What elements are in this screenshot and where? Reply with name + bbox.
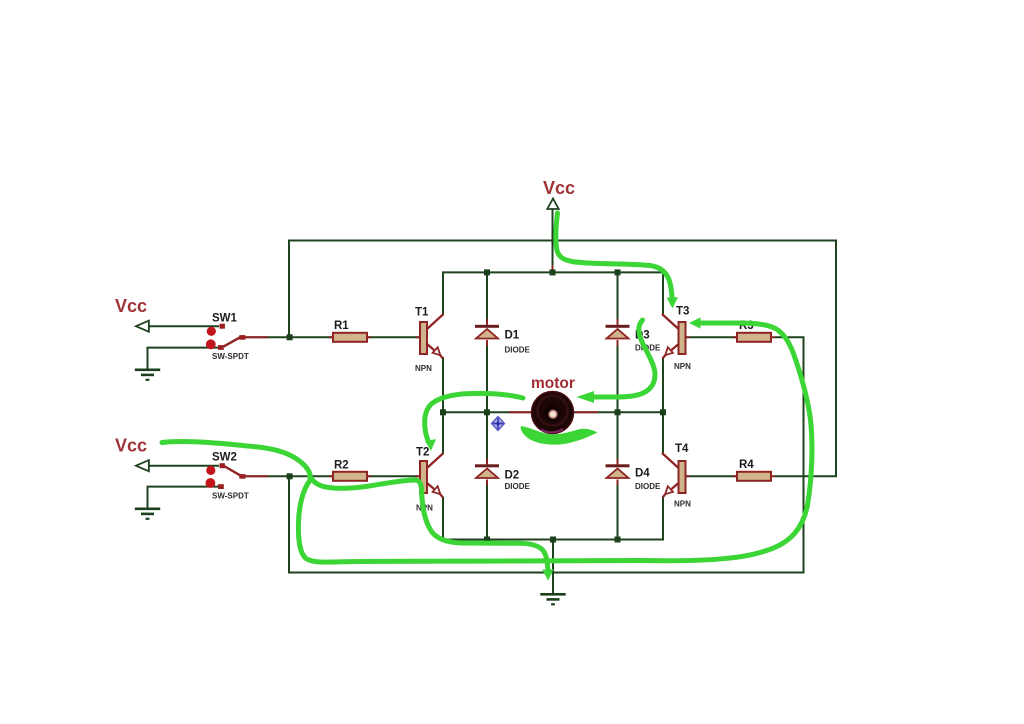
annotation arrow from motor left down into T2 collector bbox=[425, 393, 523, 441]
svg-text:DIODE: DIODE bbox=[635, 482, 661, 491]
wire R2 to T2 base bbox=[367, 475, 420, 477]
wire Vcc top drop bbox=[552, 209, 554, 272]
svg-text:NPN: NPN bbox=[415, 364, 432, 373]
wire inner top rail with ends to T1/T3 collectors bbox=[443, 272, 663, 314]
wire T2 collector up to motor row bbox=[442, 412, 444, 454]
annotation arrowhead down at center ground bbox=[542, 569, 553, 580]
wire SW1 lower throw to ground bbox=[148, 348, 219, 369]
annotation arrowhead down into T2 collector bbox=[425, 439, 436, 451]
svg-text:R4: R4 bbox=[739, 459, 754, 471]
switch SW2 bbox=[206, 452, 249, 501]
svg-text:SW-SPDT: SW-SPDT bbox=[212, 492, 249, 501]
wire SW2 lower throw to ground bbox=[148, 487, 219, 508]
wire node SW2 upper throw to Vcc arrow bbox=[149, 465, 219, 467]
wire maroon pin stubs bbox=[246, 336, 421, 338]
svg-text:NPN: NPN bbox=[674, 500, 691, 509]
svg-text:D4: D4 bbox=[635, 468, 650, 480]
annotation branch through R2 and T2 down to bottom arrow bbox=[310, 476, 548, 570]
svg-text:Vcc: Vcc bbox=[543, 178, 575, 198]
wire T3 base to R3 bbox=[686, 336, 738, 338]
annotation arrowhead down at T3 collector bbox=[667, 297, 678, 308]
svg-text:T1: T1 bbox=[415, 307, 429, 319]
wire outer top loop: left vertical, top rail, right vertical down to R4 bbox=[289, 241, 836, 477]
wire D1 column bbox=[486, 272, 488, 412]
wire motor row rail bbox=[443, 411, 663, 413]
svg-text:D2: D2 bbox=[505, 470, 520, 482]
wire T4 collector up to motor row bbox=[662, 412, 664, 454]
resistor R3 bbox=[737, 320, 771, 342]
ground under SW2 bbox=[135, 508, 160, 520]
annotation arrowhead left into motor right bbox=[577, 391, 595, 403]
resistor R4 bbox=[737, 459, 771, 481]
wire T4 base to R4 bbox=[686, 475, 738, 477]
wire SW1 common to R1 bbox=[246, 336, 333, 338]
wire D4 column bbox=[617, 412, 619, 539]
motor M1 bbox=[531, 375, 575, 434]
annotation arrowhead left into T3 base bbox=[689, 317, 701, 328]
svg-text:T3: T3 bbox=[676, 306, 689, 318]
power Vcc left lower bbox=[115, 436, 149, 472]
diode D4 bbox=[606, 464, 662, 491]
annotation motor rotation swoosh bbox=[521, 426, 598, 445]
svg-text:DIODE: DIODE bbox=[505, 482, 531, 491]
power Vcc top bbox=[543, 178, 575, 209]
svg-text:D1: D1 bbox=[505, 330, 520, 342]
svg-text:SW-SPDT: SW-SPDT bbox=[212, 352, 249, 361]
svg-text:SW1: SW1 bbox=[212, 313, 238, 325]
diode D1 bbox=[475, 325, 531, 355]
svg-text:R1: R1 bbox=[334, 320, 349, 332]
transistor T2 bbox=[416, 447, 444, 513]
annotation long loop SW2 to bottom rail to right side into T3 base bbox=[162, 323, 812, 562]
resistor R2 bbox=[333, 460, 367, 481]
resistor R1 bbox=[333, 320, 367, 342]
svg-text:Vcc: Vcc bbox=[115, 296, 147, 316]
wire D2 column bbox=[486, 412, 488, 539]
wire D3 column bbox=[617, 272, 619, 412]
ground center bottom bbox=[540, 593, 565, 605]
svg-text:Vcc: Vcc bbox=[115, 436, 147, 456]
node junction dots bbox=[287, 334, 293, 340]
wire T1 emitter down to motor row bbox=[442, 357, 444, 412]
wire R1 to T1 base bbox=[367, 336, 420, 338]
wire outer bottom loop: left vertical, bottom rail, right vertical up to R3 bbox=[289, 337, 804, 572]
ground under SW1 bbox=[135, 369, 160, 381]
diode D3 bbox=[606, 325, 662, 353]
wire T3 emitter down to motor row bbox=[662, 357, 664, 412]
wire center ground stem bbox=[552, 540, 554, 594]
transistor T4 bbox=[662, 443, 691, 509]
svg-text:DIODE: DIODE bbox=[505, 346, 531, 355]
annotation arrow from Vcc to T3 collector bbox=[556, 213, 672, 302]
wire SW2 common to R2 bbox=[246, 475, 333, 477]
svg-text:T4: T4 bbox=[675, 443, 689, 455]
wire inner bottom rail with T2/T4 emitters bbox=[443, 497, 663, 540]
svg-text:SW2: SW2 bbox=[212, 452, 237, 464]
wire node SW1 upper throw to Vcc arrow bbox=[149, 325, 219, 327]
svg-text:motor: motor bbox=[531, 375, 575, 392]
transistor T1 bbox=[415, 307, 444, 374]
svg-text:R2: R2 bbox=[334, 460, 349, 472]
diode D2 bbox=[475, 464, 531, 491]
svg-text:T2: T2 bbox=[416, 447, 429, 459]
svg-text:NPN: NPN bbox=[674, 362, 691, 371]
transistor T3 bbox=[662, 306, 691, 372]
cursor move icon bbox=[492, 417, 505, 431]
power Vcc left upper bbox=[115, 296, 149, 332]
annotation arrow into motor right side bbox=[593, 320, 655, 397]
switch SW1 bbox=[206, 313, 249, 361]
